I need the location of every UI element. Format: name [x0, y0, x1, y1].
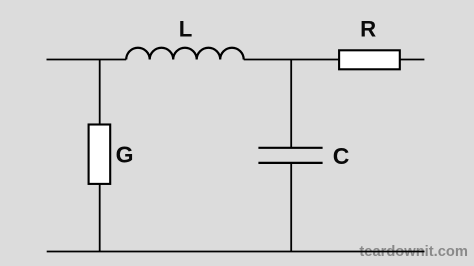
wire top-right segment	[400, 59, 425, 61]
wire G to bottom	[99, 184, 101, 252]
node B (top-right junction)	[290, 60, 292, 148]
capacitor C bottom plate	[258, 162, 322, 164]
node A (top-left junction)	[99, 60, 101, 125]
svg-text:R: R	[360, 16, 376, 41]
wire top-middle segment	[244, 59, 339, 61]
svg-text:L: L	[179, 16, 193, 41]
resistor R	[339, 50, 400, 69]
wire C to bottom	[290, 163, 292, 252]
wire top-left segment	[47, 59, 127, 61]
svg-text:G: G	[116, 142, 134, 168]
wire bottom rail	[47, 251, 425, 253]
capacitor C top plate	[258, 147, 322, 149]
svg-text:C: C	[333, 143, 350, 169]
inductor L	[126, 48, 244, 60]
resistor G	[89, 125, 111, 184]
